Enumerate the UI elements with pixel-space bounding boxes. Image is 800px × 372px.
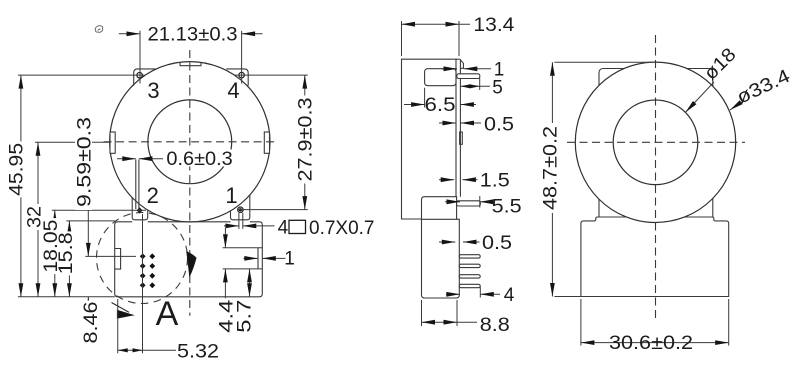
svg-text:30.6±0.2: 30.6±0.2 — [609, 333, 693, 354]
dim 0.6 line — [117, 158, 136, 160]
dim 30.6 — [581, 342, 729, 344]
toroid outer circle — [110, 62, 270, 222]
pin 4 — [239, 72, 244, 77]
svg-text:0.5: 0.5 — [482, 233, 512, 254]
disc column — [455, 59, 457, 197]
toroid inner circle — [148, 100, 232, 184]
dim 1.5 — [439, 179, 454, 181]
ext 48.7 bottom — [554, 296, 582, 298]
text 15.8 rotated — [56, 231, 77, 275]
pin 3 — [137, 73, 142, 78]
dim 6.5 — [424, 88, 426, 108]
dim 5.5 — [445, 201, 460, 203]
leader d18 — [685, 82, 714, 112]
base outline — [115, 222, 263, 297]
dim 8.8 line — [422, 321, 478, 323]
ext 21.13 right — [241, 31, 243, 84]
arrowheads left view — [127, 31, 141, 36]
svg-text:0.5: 0.5 — [484, 115, 514, 136]
dim 27.9 line — [304, 75, 306, 210]
svg-text:1: 1 — [225, 183, 237, 208]
svg-text:8.46: 8.46 — [81, 302, 102, 344]
dim 45.95 — [20, 75, 22, 297]
ear pin 1 — [231, 195, 250, 220]
top notch — [180, 62, 201, 66]
svg-text:5: 5 — [492, 77, 503, 98]
ext 27.9 bottom / pin1 row — [237, 209, 308, 211]
svg-text:6.5: 6.5 — [425, 95, 456, 116]
ext base top left — [66, 220, 114, 222]
top pin bar — [457, 74, 480, 79]
svg-text:5.32: 5.32 — [177, 342, 219, 363]
dim 0.7 line — [224, 225, 239, 227]
base left inner tab — [115, 249, 121, 270]
text 32 rotated — [24, 204, 45, 230]
ear pin 3 — [134, 69, 156, 86]
svg-text:1: 1 — [284, 249, 295, 270]
dim 4.4 stubs — [224, 228, 226, 248]
ear pin 4 — [226, 69, 248, 86]
bottom pins — [459, 255, 480, 258]
svg-text:2: 2 — [147, 183, 159, 208]
dim 21.13 line — [119, 33, 140, 35]
base upper box — [422, 197, 457, 220]
pin 1 center dot — [239, 208, 242, 211]
svg-text:27.9±0.3: 27.9±0.3 — [296, 98, 317, 182]
ext 30.6 — [580, 299, 582, 346]
svg-text:3: 3 — [147, 78, 159, 103]
side tab bump — [460, 132, 463, 144]
section arrow swoosh — [112, 303, 135, 319]
terminal labels — [147, 78, 240, 208]
text 27.9 rotated — [296, 96, 317, 184]
dimension texts left view — [7, 25, 375, 363]
dim 5 — [479, 78, 481, 90]
svg-text:9.59±0.3: 9.59±0.3 — [75, 117, 96, 207]
svg-text:4: 4 — [504, 285, 515, 306]
dim 8.46 stub — [87, 297, 89, 307]
dim 32 — [37, 142, 39, 297]
dim 4 — [479, 287, 481, 298]
ext 21.13 left — [139, 31, 141, 84]
ext top pins row — [18, 74, 144, 76]
base lower box — [422, 219, 460, 298]
text 9.59 rotated — [75, 114, 96, 210]
ext 5.32 right long line through holes — [142, 214, 144, 353]
svg-text:4: 4 — [278, 217, 289, 238]
leader d33.4 — [730, 101, 744, 110]
text 0.6 — [164, 149, 235, 170]
dim 0.5 lower — [439, 241, 455, 243]
case top edge — [402, 59, 460, 219]
wire 0.6 lines at pin2 — [135, 160, 137, 210]
svg-text:5.7: 5.7 — [235, 300, 256, 333]
horizontal centerline — [567, 141, 745, 143]
text 48.7 rotated — [541, 123, 562, 213]
svg-text:5.5: 5.5 — [492, 197, 522, 218]
rotation arrow on dashed circle — [187, 252, 197, 277]
dim 15.8 — [68, 221, 70, 297]
svg-text:4: 4 — [227, 78, 239, 103]
dashed rotation circle — [97, 213, 188, 304]
ear pin 2 — [132, 197, 148, 219]
dim 1 tab — [441, 68, 457, 70]
text 4.4 rotated — [216, 298, 237, 334]
dim 18.05 — [54, 210, 56, 296]
svg-text:0.6±0.3: 0.6±0.3 — [166, 149, 232, 170]
text 18.05 rotated — [41, 218, 62, 274]
dim 9.59 — [87, 142, 89, 256]
svg-text:21.13±0.3: 21.13±0.3 — [148, 25, 238, 46]
text 8.46 rotated — [81, 301, 102, 345]
text d33.4 rotated — [734, 66, 794, 109]
vertical centerline — [189, 50, 191, 316]
ext 27.9 top — [234, 74, 308, 76]
vertical centerline — [655, 35, 657, 320]
left side tab — [110, 132, 115, 153]
ext 8.8 — [421, 300, 423, 326]
extension and dimension lines left view — [18, 31, 308, 354]
ext 13.4 — [401, 21, 403, 56]
ext base bottom to left dims — [18, 296, 115, 298]
svg-text:15.8: 15.8 — [56, 232, 77, 274]
ext pin2 row — [52, 209, 146, 211]
text 5.7 rotated — [235, 298, 256, 334]
wire holes 2x4 grid — [140, 253, 155, 288]
svg-text:1.5: 1.5 — [480, 171, 510, 192]
ext centerline left — [35, 141, 109, 143]
dim 0.5 upper — [439, 122, 456, 124]
svg-text:13.4: 13.4 — [473, 15, 514, 36]
ext 0.7 pins — [238, 213, 240, 229]
ext 48.7 top — [554, 61, 652, 63]
svg-text:48.7±0.2: 48.7±0.2 — [541, 126, 562, 210]
pin 2 square — [137, 207, 143, 213]
right side tab — [264, 132, 269, 153]
slot ext lines — [223, 247, 263, 249]
text 45.95 rotated — [7, 141, 28, 197]
smudge artifact — [95, 26, 103, 33]
text d18 rotated — [700, 44, 740, 84]
ext 5.32 left — [117, 299, 119, 353]
svg-text:A: A — [156, 295, 179, 333]
rear ear plate — [599, 69, 713, 229]
top right tab — [460, 59, 464, 68]
pin 1 — [238, 207, 243, 212]
dim 5.7 — [249, 269, 251, 297]
base block — [581, 217, 729, 297]
dim 13.4 line — [402, 23, 471, 25]
dim 5.32 line — [118, 349, 176, 351]
toroid inner circle rear — [613, 100, 698, 185]
ext first hole row — [85, 255, 136, 257]
pin housing top — [425, 69, 456, 86]
lower pin bar — [457, 201, 481, 206]
svg-text:8.8: 8.8 — [480, 315, 510, 336]
horizontal centerline — [104, 141, 276, 143]
svg-text:0.7X0.7: 0.7X0.7 — [309, 218, 375, 239]
svg-text:45.95: 45.95 — [7, 143, 28, 196]
dim 48.7 — [551, 62, 553, 296]
toroid outer circle rear — [575, 62, 735, 222]
dim 1 notch — [244, 257, 258, 259]
